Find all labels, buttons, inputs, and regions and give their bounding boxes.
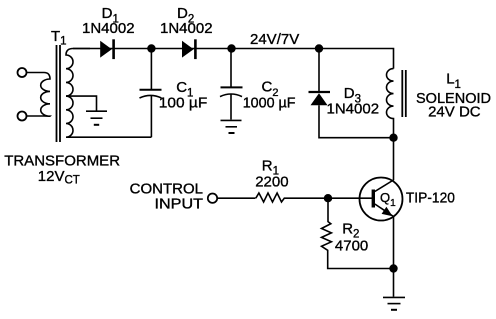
svg-text:1000 µF: 1000 µF xyxy=(243,94,296,111)
svg-text:TIP-120: TIP-120 xyxy=(406,190,455,207)
svg-text:2200: 2200 xyxy=(255,173,288,190)
svg-text:1N4002: 1N4002 xyxy=(327,101,380,118)
svg-text:24V/7V: 24V/7V xyxy=(250,31,299,48)
svg-text:24V DC: 24V DC xyxy=(428,104,481,121)
svg-text:4700: 4700 xyxy=(335,238,368,255)
svg-text:INPUT: INPUT xyxy=(155,196,204,213)
svg-text:100 µF: 100 µF xyxy=(159,95,208,112)
svg-text:1N4002: 1N4002 xyxy=(160,20,213,37)
svg-text:1N4002: 1N4002 xyxy=(82,20,135,37)
